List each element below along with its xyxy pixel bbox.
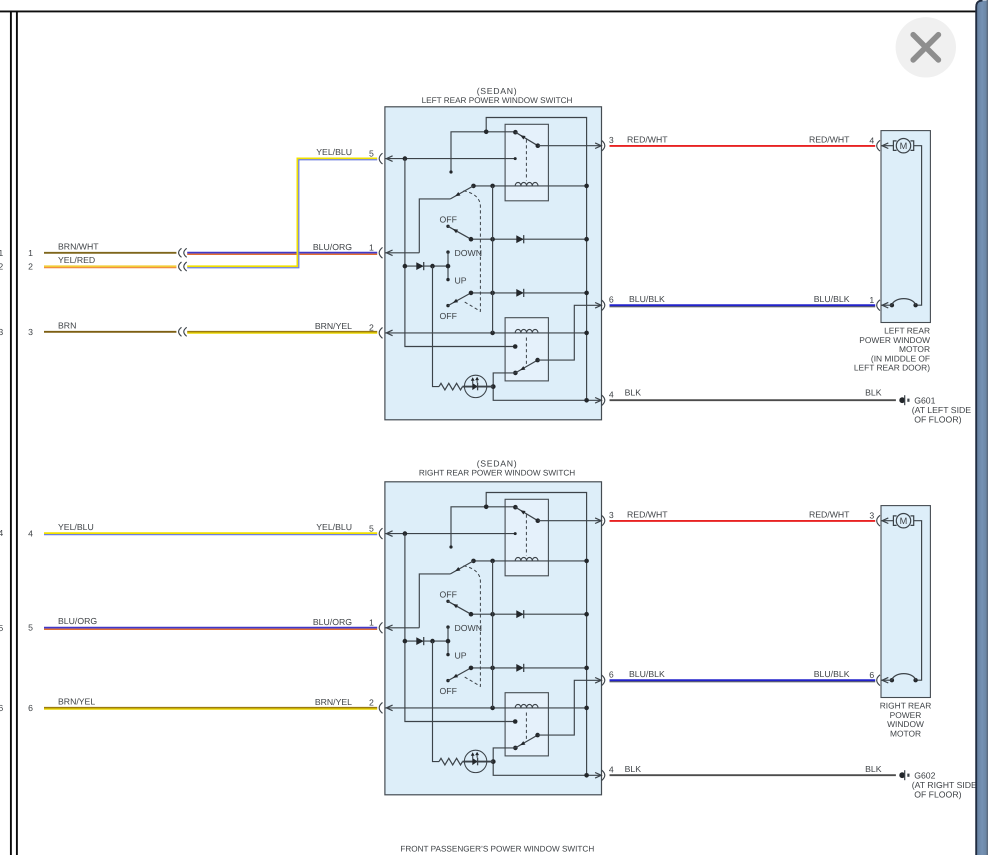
relay K2 fixed contact dot (block left rear power window switch) [513, 344, 518, 349]
svg-text:OF FLOOR): OF FLOOR) [914, 789, 961, 799]
svg-text:FRONT PASSENGER’S POWER WINDOW: FRONT PASSENGER’S POWER WINDOW SWITCH [400, 844, 594, 853]
wire K2 pivot to LED node and pin4 (block right rear power window switch) [493, 748, 601, 775]
svg-text:YEL/BLU: YEL/BLU [316, 147, 352, 157]
svg-text:BLK: BLK [625, 388, 642, 398]
motor pin 4 connector (left rear motor) [877, 140, 880, 151]
coil K2 (block right rear power window switch) [515, 704, 538, 707]
svg-text:6: 6 [609, 295, 614, 305]
svg-text:BLU/ORG: BLU/ORG [313, 617, 352, 627]
relay K2 fixed contact dot (block right rear power window switch) [513, 719, 518, 724]
motor M symbol (left rear motor) [881, 145, 894, 147]
svg-text:2: 2 [28, 262, 33, 272]
wire relay K1 common feed (block right rear power window switch) [451, 507, 515, 547]
relay K1 actuator dashed link (block right rear power window switch) [525, 515, 527, 556]
switch OFF upper arm (block left rear power window switch) [448, 226, 471, 239]
relay K2 box (block right rear power window switch) [505, 693, 548, 756]
wire K2 pivot to LED node and pin4 (block left rear power window switch) [493, 373, 601, 400]
wire pin3 row (block right rear power window switch) [538, 520, 602, 522]
switch OFF lower pivot dot (block left rear power window switch) [446, 304, 449, 307]
wire coil K1 row (block right rear power window switch) [474, 560, 587, 562]
pin 4 connector (block left rear power window switch) [595, 398, 601, 404]
svg-text:3: 3 [0, 327, 3, 337]
wire center vertical (block left rear power window switch) [492, 186, 494, 333]
svg-text:BRN: BRN [58, 320, 76, 330]
wire diode row B (block left rear power window switch) [405, 265, 448, 267]
pin 1 connector (block right rear power window switch) [386, 625, 392, 631]
svg-text:4: 4 [869, 135, 874, 145]
wire DOWN-UP segment (block left rear power window switch) [447, 252, 449, 280]
wire RED/WHT block2 [610, 520, 876, 522]
wire BRN/YEL block2 [44, 707, 377, 709]
svg-text:DOWN: DOWN [455, 248, 483, 258]
wire BLU/BLK block1 [610, 304, 876, 306]
svg-text:5: 5 [369, 148, 374, 158]
wire diode row C (block left rear power window switch) [471, 292, 587, 294]
pin 1 connector (block left rear power window switch) [386, 250, 392, 256]
svg-text:BLK: BLK [625, 764, 642, 774]
motor box (left rear motor) [881, 131, 930, 323]
svg-text:RED/WHT: RED/WHT [809, 509, 850, 519]
svg-text:BLU/BLK: BLU/BLK [629, 294, 665, 304]
svg-text:BLU/BLK: BLU/BLK [629, 669, 665, 679]
svg-text:RIGHT REAR POWER WINDOW SWITCH: RIGHT REAR POWER WINDOW SWITCH [419, 469, 575, 478]
close button [896, 17, 956, 77]
wire DOWN-UP segment (block right rear power window switch) [447, 627, 449, 655]
relay K1 pivot dot (block left rear power window switch) [513, 130, 518, 135]
wire K2 contact to pin6 (block left rear power window switch) [538, 305, 602, 360]
wire BRN [44, 331, 176, 333]
relay K1 arm (block left rear power window switch) [515, 132, 537, 146]
pin 6 connector (block left rear power window switch) [595, 303, 601, 309]
wire BRN/YEL to pin 2 [187, 331, 377, 333]
wire YEL/BLU riser to pin 5 [187, 158, 377, 266]
relay K1 fixed contact dot (block left rear power window switch) [514, 157, 517, 160]
wire pin1 row (block left rear power window switch) [385, 252, 419, 254]
svg-text:G602: G602 [914, 770, 935, 780]
wire BRN/WHT (pin1 feed) [44, 252, 176, 254]
svg-text:1: 1 [28, 248, 33, 258]
inline connector wire3 [179, 327, 182, 336]
svg-text:4: 4 [28, 528, 33, 538]
motor pin 3 connector (right rear motor) [877, 515, 880, 526]
page top rule [0, 10, 976, 12]
svg-text:UP: UP [455, 276, 467, 286]
pin 6 connector (block right rear power window switch) [595, 678, 601, 684]
switch OFF lower pivot dot (block right rear power window switch) [446, 679, 449, 682]
wire BLU/ORG to pin 1 [187, 252, 377, 254]
svg-text:RED/WHT: RED/WHT [627, 509, 668, 519]
pin 2 connector (block right rear power window switch) [386, 705, 392, 711]
motor brush dots and arc (right rear motor) [913, 678, 917, 682]
mechanical link dashed (block left rear power window switch) [463, 191, 481, 311]
svg-text:6: 6 [28, 703, 33, 713]
svg-text:5: 5 [369, 523, 374, 533]
coil K1 (block right rear power window switch) [515, 557, 538, 560]
selector switch S1 arm (block right rear power window switch) [450, 561, 473, 574]
svg-text:5: 5 [28, 623, 33, 633]
motor box (right rear motor) [881, 506, 930, 698]
pin 2 connector (block left rear power window switch) [386, 330, 392, 336]
wire left vertical to K2 contact (block right rear power window switch) [405, 534, 515, 722]
LED lamp (block left rear power window switch) [464, 375, 486, 397]
svg-text:(SEDAN): (SEDAN) [477, 458, 518, 468]
diode D3 (block left rear power window switch) [516, 289, 523, 297]
motor pin 6 connector (right rear motor) [881, 679, 892, 681]
wire diode row A (block right rear power window switch) [471, 613, 587, 615]
contact end dot (block right rear power window switch) [449, 545, 452, 548]
relay K2 actuator dashed link (block right rear power window switch) [525, 713, 527, 741]
diode D1 (block right rear power window switch) [416, 637, 423, 645]
junction LED node (block left rear power window switch) [491, 384, 496, 389]
svg-text:YEL/BLU: YEL/BLU [316, 522, 352, 532]
svg-text:YEL/RED: YEL/RED [58, 255, 95, 265]
svg-text:5: 5 [0, 623, 3, 633]
svg-text:3: 3 [609, 510, 614, 520]
switch OFF lower arm (block left rear power window switch) [448, 293, 471, 306]
svg-text:M: M [900, 141, 908, 151]
contact end dot (block left rear power window switch) [449, 170, 452, 173]
wire BLK block2 [610, 774, 896, 776]
diode D2 (block left rear power window switch) [516, 235, 523, 243]
wire S1 pivot to pin1 (block left rear power window switch) [419, 199, 450, 253]
pin 3 connector (block left rear power window switch) [595, 143, 601, 149]
DOWN contact dot (block left rear power window switch) [446, 250, 449, 253]
wire BLU/BLK block2 [610, 679, 876, 681]
wire pin5 row (block right rear power window switch) [385, 533, 515, 535]
relay K2 pivot dot (block right rear power window switch) [513, 746, 518, 751]
svg-text:3: 3 [869, 510, 874, 520]
svg-text:BRN/YEL: BRN/YEL [315, 697, 352, 707]
junction pin5/left vertical (block left rear power window switch) [403, 156, 408, 161]
relay K2 contact dot (block left rear power window switch) [535, 358, 540, 363]
relay K1 contact dot (block right rear power window switch) [536, 518, 541, 523]
svg-text:6: 6 [609, 670, 614, 680]
svg-text:OF FLOOR): OF FLOOR) [914, 414, 961, 424]
switch OFF upper pivot dot (block right rear power window switch) [446, 600, 449, 603]
svg-text:6: 6 [0, 703, 3, 713]
svg-text:1: 1 [869, 295, 874, 305]
svg-text:LEFT REAR POWER WINDOW SWITCH: LEFT REAR POWER WINDOW SWITCH [422, 96, 573, 105]
junction coil row (block left rear power window switch) [471, 184, 476, 189]
inline connector wire2 [179, 262, 182, 271]
relay K2 box (block left rear power window switch) [505, 318, 548, 381]
wire top bus and right bus (block left rear power window switch) [486, 118, 586, 401]
relay K1 box (block left rear power window switch) [505, 124, 548, 201]
DOWN contact dot (block right rear power window switch) [446, 625, 449, 628]
ground G601 symbol [899, 397, 905, 403]
pin 3 connector (block right rear power window switch) [595, 518, 601, 524]
junction LED node (block right rear power window switch) [491, 759, 496, 764]
wire resistor to LED (block right rear power window switch) [463, 761, 494, 763]
pin 4 connector (block right rear power window switch) [595, 773, 601, 779]
svg-text:(SEDAN): (SEDAN) [477, 86, 518, 96]
motor M symbol (right rear motor) [881, 520, 894, 522]
svg-text:2: 2 [0, 262, 3, 272]
coil K2 (block left rear power window switch) [515, 329, 538, 332]
svg-text:6: 6 [869, 670, 874, 680]
motor brush dots and arc (left rear motor) [913, 303, 917, 307]
relay K1 pivot dot (block right rear power window switch) [513, 505, 518, 510]
svg-text:RED/WHT: RED/WHT [809, 134, 850, 144]
svg-text:4: 4 [609, 390, 614, 400]
svg-text:1: 1 [369, 243, 374, 253]
wire pin3 row (block left rear power window switch) [538, 145, 602, 147]
wire YEL/RED [44, 265, 176, 267]
UP contact dot (block right rear power window switch) [446, 653, 449, 656]
switch OFF lower arm (block right rear power window switch) [448, 668, 471, 681]
svg-text:UP: UP [455, 651, 467, 661]
svg-text:BLK: BLK [865, 764, 882, 774]
svg-text:2: 2 [369, 698, 374, 708]
svg-text:4: 4 [0, 528, 3, 538]
wire illumination feed vertical (block left rear power window switch) [433, 266, 440, 387]
wire resistor to LED (block left rear power window switch) [463, 386, 494, 388]
svg-text:BLU/ORG: BLU/ORG [58, 616, 97, 626]
junction (block right rear power window switch) [484, 505, 489, 510]
LED lamp (block right rear power window switch) [464, 750, 486, 772]
wire BLU/ORG block2 [44, 627, 377, 629]
junction (block left rear power window switch) [484, 130, 489, 135]
junction pin5/left vertical (block right rear power window switch) [403, 531, 408, 536]
wire coil K1 row (block left rear power window switch) [474, 185, 587, 187]
previous page right border [10, 11, 12, 855]
svg-text:BRN/YEL: BRN/YEL [58, 696, 95, 706]
wire pin1 row (block right rear power window switch) [385, 627, 419, 629]
wire diode row B (block right rear power window switch) [405, 640, 448, 642]
pin 5 connector (block right rear power window switch) [386, 531, 392, 537]
svg-text:BLK: BLK [865, 388, 882, 398]
svg-text:OFF: OFF [440, 214, 457, 224]
wire pin5 row (block left rear power window switch) [385, 158, 515, 160]
relay K2 actuator dashed link (block left rear power window switch) [525, 338, 527, 366]
svg-text:BLU/BLK: BLU/BLK [814, 669, 850, 679]
selector switch S1 arm (block left rear power window switch) [450, 186, 473, 199]
svg-text:RED/WHT: RED/WHT [627, 134, 668, 144]
svg-text:BRN/WHT: BRN/WHT [58, 241, 99, 251]
diode D1 (block left rear power window switch) [416, 262, 423, 270]
svg-text:1: 1 [0, 248, 3, 258]
svg-text:DOWN: DOWN [455, 623, 483, 633]
switch unit box right rear power window switch [385, 482, 602, 795]
resistor R1 (block left rear power window switch) [439, 383, 462, 390]
wire pin2 / coil K2 row (block left rear power window switch) [385, 332, 587, 334]
svg-text:OFF: OFF [440, 686, 457, 696]
coil K1 (block left rear power window switch) [515, 182, 538, 185]
wire diode row A (block left rear power window switch) [471, 238, 587, 240]
relay K1 fixed contact dot (block right rear power window switch) [514, 532, 517, 535]
UP contact dot (block left rear power window switch) [446, 278, 449, 281]
wire motor internal (right rear motor) [914, 521, 922, 681]
svg-text:MOTOR: MOTOR [890, 728, 921, 738]
wire pin2 / coil K2 row (block right rear power window switch) [385, 707, 587, 709]
wire diode row C (block right rear power window switch) [471, 667, 587, 669]
pin 5 connector (block left rear power window switch) [386, 156, 392, 162]
svg-text:1: 1 [369, 618, 374, 628]
ground G602 symbol [899, 772, 905, 778]
page left border [16, 11, 18, 855]
svg-text:BRN/YEL: BRN/YEL [315, 321, 352, 331]
svg-text:LEFT REAR DOOR): LEFT REAR DOOR) [854, 363, 930, 373]
diode D2 (block right rear power window switch) [516, 610, 523, 618]
wire center vertical (block right rear power window switch) [492, 561, 494, 708]
svg-text:M: M [900, 516, 908, 526]
svg-text:OFF: OFF [440, 311, 457, 321]
svg-text:OFF: OFF [440, 589, 457, 599]
relay K2 arm (block right rear power window switch) [515, 735, 537, 748]
switch OFF upper pivot dot (block left rear power window switch) [446, 225, 449, 228]
svg-text:YEL/BLU: YEL/BLU [58, 522, 94, 532]
motor pin 1 connector (left rear motor) [881, 304, 892, 306]
inline connector wire1 [179, 248, 182, 257]
relay K1 box (block right rear power window switch) [505, 499, 548, 576]
wire K2 contact to pin6 (block right rear power window switch) [538, 680, 602, 735]
switch OFF upper arm (block right rear power window switch) [448, 601, 471, 614]
resistor R1 (block right rear power window switch) [439, 758, 462, 765]
svg-text:3: 3 [609, 135, 614, 145]
relay K1 arm (block right rear power window switch) [515, 507, 537, 521]
svg-text:BLU/ORG: BLU/ORG [313, 242, 352, 252]
switch unit box left rear power window switch [385, 107, 602, 420]
svg-text:G601: G601 [914, 395, 935, 405]
wire YEL/BLU block2 [44, 532, 377, 534]
svg-text:4: 4 [609, 765, 614, 775]
svg-text:BLU/BLK: BLU/BLK [814, 294, 850, 304]
mechanical link dashed (block right rear power window switch) [463, 566, 481, 687]
relay K2 pivot dot (block left rear power window switch) [513, 371, 518, 376]
wire left vertical to K2 contact (block left rear power window switch) [405, 159, 515, 347]
wire RED/WHT block1 [610, 145, 876, 147]
relay K2 contact dot (block right rear power window switch) [535, 733, 540, 738]
wire motor internal (left rear motor) [914, 146, 922, 306]
relay K2 arm (block left rear power window switch) [515, 360, 537, 373]
wire illumination feed vertical (block right rear power window switch) [433, 641, 440, 762]
wire top bus and right bus (block right rear power window switch) [486, 493, 586, 776]
relay K1 contact dot (block left rear power window switch) [536, 143, 541, 148]
svg-text:3: 3 [28, 327, 33, 337]
wire S1 pivot to pin1 (block right rear power window switch) [419, 574, 450, 628]
relay K1 actuator dashed link (block left rear power window switch) [525, 140, 527, 181]
junction coil row (block right rear power window switch) [471, 559, 476, 564]
wire relay K1 common feed (block left rear power window switch) [451, 132, 515, 172]
wire BLK block1 [610, 399, 896, 401]
diode D3 (block right rear power window switch) [516, 664, 523, 672]
